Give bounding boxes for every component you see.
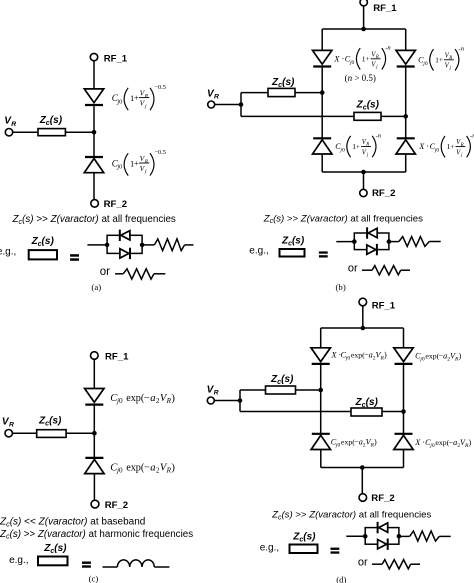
svg-text:(n > 0.5): (n > 0.5)	[345, 73, 376, 83]
svg-text:R: R	[11, 121, 16, 128]
svg-text:RF_1: RF_1	[104, 53, 128, 64]
svg-text:R: R	[214, 93, 219, 100]
svg-text:(b): (b)	[336, 282, 346, 292]
svg-text:−a2VR): −a2VR)	[144, 393, 176, 405]
svg-text:RF_1: RF_1	[105, 351, 129, 362]
svg-text:j0: j0	[116, 397, 123, 405]
svg-text:R: R	[214, 389, 219, 396]
svg-text:Zc(s): Zc(s)	[270, 374, 294, 386]
svg-text:or: or	[348, 263, 358, 275]
svg-text:(c): (c)	[89, 574, 99, 583]
svg-text:Zc(s): Zc(s)	[43, 543, 67, 555]
svg-text:X ·: X ·	[418, 142, 429, 151]
svg-text:Zc(s): Zc(s)	[281, 236, 305, 248]
svg-text:Zc(s): Zc(s)	[39, 115, 63, 127]
svg-text:X ·: X ·	[414, 438, 425, 447]
svg-text:RF_2: RF_2	[371, 493, 394, 504]
svg-text:−a2VR): −a2VR)	[144, 462, 176, 474]
svg-text:Zc(s): Zc(s)	[292, 532, 316, 544]
svg-text:e.g.,: e.g.,	[249, 245, 268, 256]
svg-text:or: or	[358, 556, 368, 568]
svg-text:(a): (a)	[91, 282, 101, 292]
svg-text:RF_1: RF_1	[372, 300, 396, 311]
svg-text:R: R	[9, 422, 14, 429]
svg-text:e.g.,: e.g.,	[0, 246, 16, 257]
svg-text:Zc(s): Zc(s)	[38, 416, 62, 428]
svg-text:Zc(s) << Z(varactor) at baseba: Zc(s) << Z(varactor) at baseband	[0, 517, 145, 529]
svg-text:e.g.,: e.g.,	[260, 542, 279, 553]
svg-text:or: or	[100, 266, 110, 278]
svg-text:Zc(s): Zc(s)	[271, 77, 295, 89]
svg-text:j0: j0	[116, 466, 123, 474]
svg-text:RF_2: RF_2	[372, 188, 395, 199]
svg-text:Zc(s): Zc(s)	[355, 397, 379, 409]
svg-text:e.g.,: e.g.,	[9, 555, 28, 566]
svg-text:(d): (d)	[336, 574, 346, 583]
svg-text:Zc(s) >> Z(varactor) at harmon: Zc(s) >> Z(varactor) at harmonic frequen…	[0, 529, 193, 541]
svg-text:Zc(s): Zc(s)	[31, 236, 55, 248]
svg-text:exp(: exp(	[126, 393, 145, 404]
svg-text:Zc(s) >> Z(varactor) at all fr: Zc(s) >> Z(varactor) at all frequencies	[271, 510, 431, 522]
svg-text:Zc(s) >> Z(varactor) at all fr: Zc(s) >> Z(varactor) at all frequencies	[12, 214, 176, 226]
svg-text:RF_2: RF_2	[105, 500, 128, 511]
svg-text:Zc(s): Zc(s)	[356, 99, 380, 111]
svg-text:X ·: X ·	[333, 54, 344, 63]
svg-text:Zc(s) >> Z(varactor) at all fr: Zc(s) >> Z(varactor) at all frequencies	[263, 213, 423, 225]
svg-text:RF_2: RF_2	[104, 199, 127, 210]
svg-text:RF_1: RF_1	[373, 3, 397, 14]
svg-text:exp(: exp(	[126, 462, 145, 473]
